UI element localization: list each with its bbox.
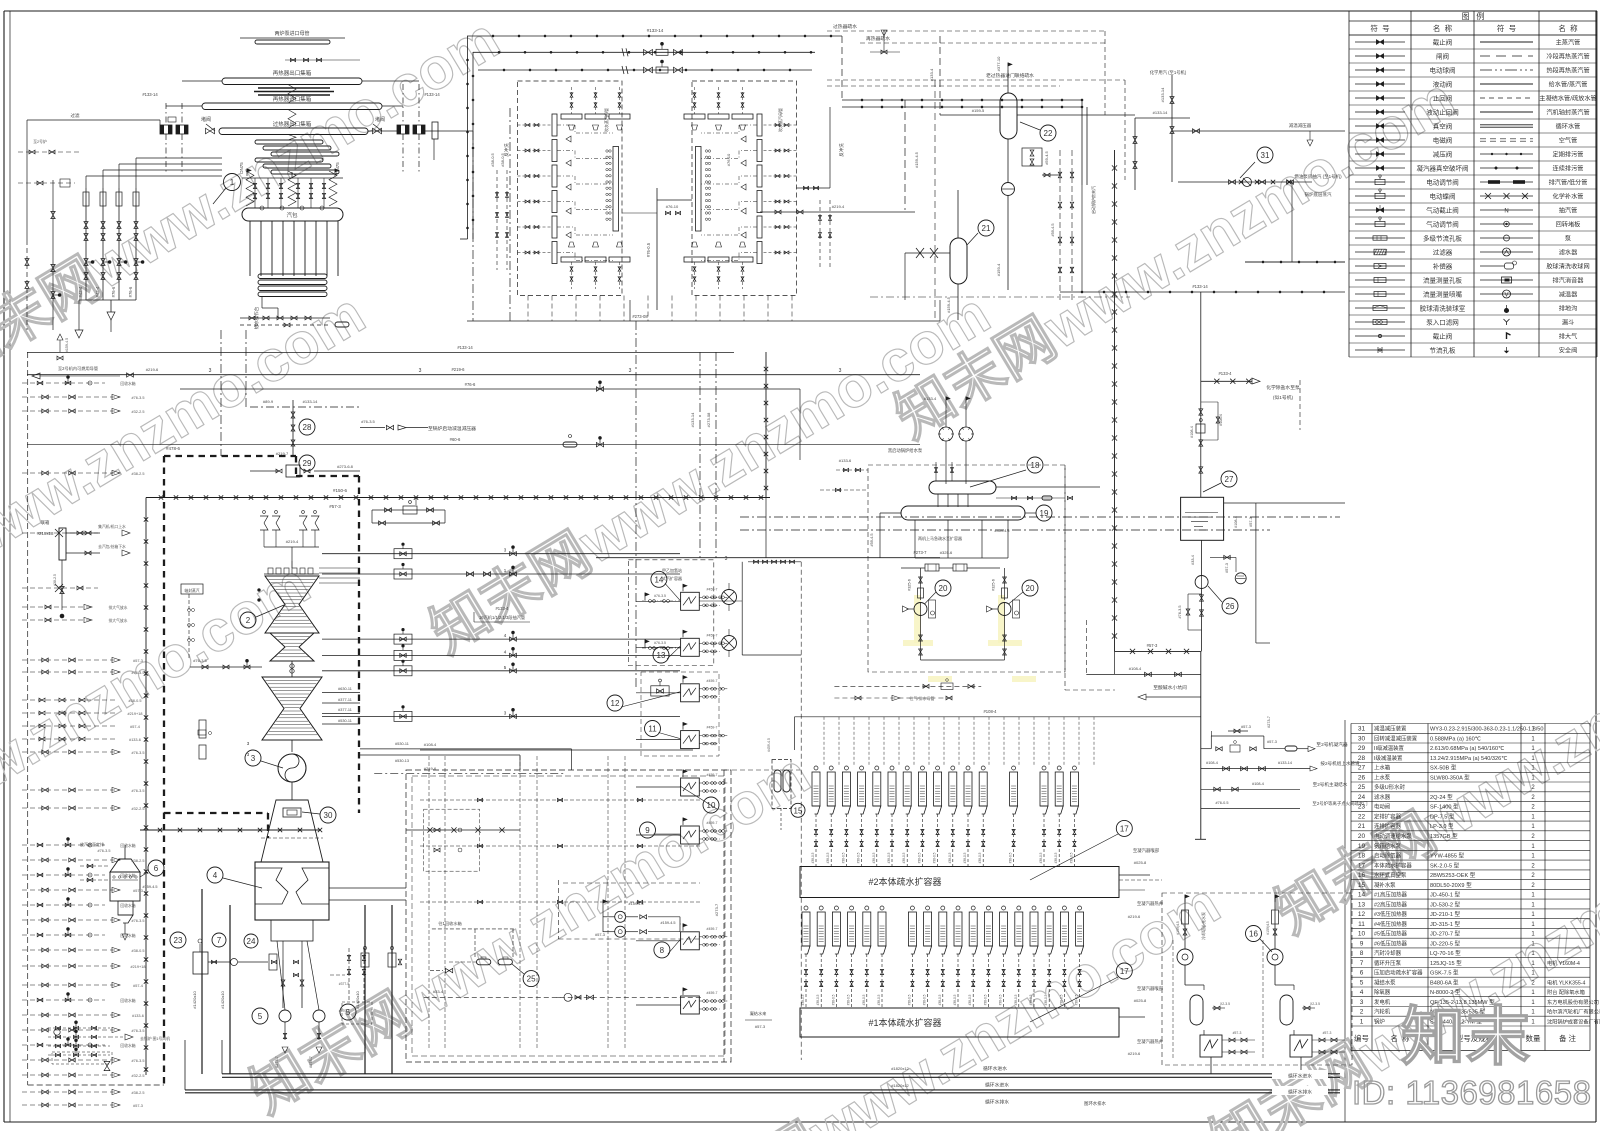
svg-text:#38-0.5: #38-0.5 (1044, 994, 1048, 1005)
svg-text:#219-6: #219-6 (146, 367, 159, 372)
svg-text:#459-4.5: #459-4.5 (995, 529, 1010, 533)
svg-text:#76-3.5: #76-3.5 (361, 419, 375, 424)
svg-text:#57-3: #57-3 (1225, 563, 1229, 573)
svg-text:#219+18: #219+18 (128, 712, 143, 716)
svg-text:SLW80-350A 型: SLW80-350A 型 (1430, 773, 1470, 781)
svg-text:#377-11: #377-11 (338, 698, 352, 702)
svg-text:锅炉底层蒸汽: 锅炉底层蒸汽 (1305, 191, 1332, 198)
svg-text:10: 10 (1358, 931, 1366, 938)
svg-text:启动除氧器: 启动除氧器 (1374, 852, 1402, 860)
svg-text:#76-10: #76-10 (666, 204, 679, 209)
svg-text:#159-4.5: #159-4.5 (65, 338, 69, 352)
svg-text:#38-0.5: #38-0.5 (933, 852, 937, 863)
svg-text:29: 29 (1358, 745, 1366, 752)
svg-text:#38-0.5: #38-0.5 (917, 852, 921, 863)
svg-text:#1420x10: #1420x10 (192, 990, 197, 1008)
svg-text:#133-6: #133-6 (132, 1014, 144, 1018)
svg-text:循环升压泵: 循环升压泵 (1374, 959, 1402, 967)
svg-text:30: 30 (1358, 735, 1366, 742)
svg-text:11: 11 (648, 725, 657, 734)
svg-text:13.24/2.915MPa (a) 540/326℃: 13.24/2.915MPa (a) 540/326℃ (1430, 756, 1508, 762)
svg-text:化学补水管: 化学补水管 (1553, 193, 1584, 201)
svg-text:减压阀: 减压阀 (1433, 150, 1453, 159)
svg-text:至凝汽器热井: 至凝汽器热井 (1137, 1038, 1164, 1045)
svg-text:汽机轴封蒸汽管: 汽机轴封蒸汽管 (1546, 109, 1589, 117)
svg-text:29: 29 (303, 459, 312, 468)
svg-text:#76-3.5: #76-3.5 (132, 751, 145, 755)
svg-text:17: 17 (1358, 862, 1366, 869)
svg-text:定排扩容器: 定排扩容器 (1374, 813, 1402, 821)
svg-text:#57-3: #57-3 (1249, 517, 1253, 527)
svg-text:化学除盐水至泵: 化学除盐水至泵 (1266, 384, 1300, 391)
svg-text:#108-4: #108-4 (1129, 666, 1142, 671)
svg-text:#325-6: #325-6 (940, 550, 953, 555)
svg-text:#38-0.5: #38-0.5 (938, 994, 942, 1005)
svg-text:气动调节阀: 气动调节阀 (1426, 220, 1459, 229)
svg-text:#273-7: #273-7 (1267, 716, 1271, 728)
svg-text:#133-6: #133-6 (839, 458, 852, 463)
svg-text:24: 24 (247, 937, 256, 946)
svg-text:24: 24 (1358, 794, 1366, 801)
svg-text:附台 配除氧水箱: 附台 配除氧水箱 (1547, 988, 1585, 996)
svg-text:#1本体疏水扩容器: #1本体疏水扩容器 (868, 1017, 941, 1028)
svg-text:汽封冷却器: 汽封冷却器 (1374, 949, 1402, 957)
svg-text:#133-4: #133-4 (929, 68, 934, 81)
svg-text:往1回收水箱: 往1回收水箱 (438, 920, 461, 927)
svg-text:主蒸汽管: 主蒸汽管 (1556, 39, 1581, 47)
svg-text:SX-50B 型: SX-50B 型 (1430, 764, 1457, 772)
svg-text:#108-4: #108-4 (1190, 426, 1194, 438)
svg-text:#38-2.5: #38-2.5 (132, 1091, 145, 1095)
svg-text:知末: 知末 (1401, 1001, 1531, 1073)
svg-text:9: 9 (1360, 940, 1364, 947)
svg-text:#38-0.5: #38-0.5 (902, 852, 906, 863)
svg-text:#133-14: #133-14 (457, 345, 473, 350)
svg-text:#1高压加热器: #1高压加热器 (1374, 891, 1408, 899)
svg-text:#219-4: #219-4 (832, 204, 845, 209)
svg-text:#42-4: #42-4 (78, 286, 83, 297)
svg-text:#459-7: #459-7 (707, 633, 718, 637)
svg-text:#1420x10: #1420x10 (220, 990, 225, 1008)
svg-text:3: 3 (251, 754, 256, 763)
svg-text:排大气放水: 排大气放水 (109, 605, 128, 610)
svg-text:至2号机主凝结水: 至2号机主凝结水 (1313, 781, 1348, 788)
svg-text:3: 3 (839, 368, 842, 374)
svg-text:#108-4: #108-4 (983, 709, 997, 714)
svg-text:至凝汽器喉部: 至凝汽器喉部 (1137, 985, 1164, 992)
svg-text:名 称: 名 称 (1433, 23, 1453, 33)
svg-text:汽包: 汽包 (286, 211, 298, 219)
svg-text:名 称: 名 称 (1558, 23, 1578, 33)
svg-text:排大气放水: 排大气放水 (109, 618, 128, 623)
svg-text:#273-7: #273-7 (913, 550, 927, 555)
svg-text:2: 2 (1360, 1009, 1364, 1016)
svg-text:#89-9: #89-9 (263, 399, 274, 404)
svg-text:#57-3: #57-3 (133, 1104, 143, 1108)
svg-text:#459-7: #459-7 (707, 679, 718, 683)
svg-text:I级减温装置: I级减温装置 (1374, 754, 1403, 762)
svg-text:堵阀: 堵阀 (201, 116, 211, 123)
svg-text:#38-0.5: #38-0.5 (816, 994, 820, 1005)
svg-text:反冲洗: 反冲洗 (838, 143, 845, 157)
svg-text:80DL50-20X9 型: 80DL50-20X9 型 (1430, 881, 1472, 889)
svg-text:#133-14: #133-14 (1160, 87, 1165, 102)
svg-text:#57-3: #57-3 (1241, 725, 1251, 729)
svg-text:#38-0.5: #38-0.5 (1075, 994, 1079, 1005)
svg-text:9: 9 (645, 826, 650, 835)
svg-text:#32-2.5: #32-2.5 (132, 410, 145, 414)
svg-text:连排扩容器: 连排扩容器 (1374, 822, 1402, 830)
svg-text:燃油泵房抽汽 (至1号机): 燃油泵房抽汽 (至1号机) (1294, 173, 1342, 180)
svg-text:#459-7: #459-7 (707, 821, 718, 825)
svg-text:2Q-24 型: 2Q-24 型 (1430, 793, 1453, 801)
svg-text:#76-3.5: #76-3.5 (132, 671, 145, 675)
svg-text:20: 20 (1026, 584, 1035, 593)
svg-text:图环水排水: 图环水排水 (1084, 1100, 1107, 1107)
svg-text:循环水排水: 循环水排水 (985, 1099, 1009, 1106)
svg-text:黑启动锅炉给水泵: 黑启动锅炉给水泵 (888, 447, 923, 454)
svg-text:水环式真空泵: 水环式真空泵 (1374, 871, 1407, 879)
svg-text:#38-0.5: #38-0.5 (801, 994, 805, 1005)
svg-text:锅炉: 锅炉 (1374, 1017, 1385, 1025)
svg-text:27: 27 (1225, 475, 1234, 484)
svg-text:#38-0.5: #38-0.5 (132, 949, 145, 953)
svg-text:#76-6: #76-6 (128, 286, 133, 297)
svg-text:堵阀: 堵阀 (375, 116, 385, 123)
svg-text:安全阀: 安全阀 (1559, 347, 1578, 355)
svg-text:#38-0.5: #38-0.5 (490, 152, 495, 166)
svg-text:去汽包/处箱下水: 去汽包/处箱下水 (98, 544, 126, 549)
svg-text:23: 23 (1358, 804, 1366, 811)
svg-text:本体疏水扩容器: 本体疏水扩容器 (1374, 861, 1412, 869)
svg-text:JD-530-2 型: JD-530-2 型 (1430, 900, 1461, 908)
svg-text:17: 17 (1120, 967, 1129, 976)
svg-text:13: 13 (1358, 901, 1366, 908)
svg-text:#76-3.5: #76-3.5 (132, 789, 145, 793)
svg-text:截止阀: 截止阀 (1433, 38, 1453, 47)
svg-text:#459-7: #459-7 (707, 587, 718, 591)
svg-text:#108-4: #108-4 (1219, 414, 1223, 426)
svg-text:#133-14: #133-14 (1278, 761, 1292, 765)
svg-text:回收水箱: 回收水箱 (120, 903, 135, 908)
svg-text:JD-450-1 型: JD-450-1 型 (1430, 891, 1461, 899)
svg-text:#2本体疏水扩容器: #2本体疏水扩容器 (868, 876, 941, 887)
svg-text:X2-3.5: X2-3.5 (1310, 1002, 1320, 1006)
svg-text:氨箱给水泵: 氨箱给水泵 (1374, 842, 1402, 850)
svg-text:备 注: 备 注 (1559, 1033, 1577, 1043)
svg-text:反冲洗: 反冲洗 (503, 143, 510, 157)
svg-text:#33-4: #33-4 (433, 989, 444, 994)
svg-text:至凝汽器热井: 至凝汽器热井 (1137, 900, 1164, 907)
svg-text:JD-210-1 型: JD-210-1 型 (1430, 910, 1461, 918)
svg-text:28: 28 (303, 423, 312, 432)
svg-text:#38-0.5: #38-0.5 (841, 852, 845, 863)
svg-text:#133-14: #133-14 (647, 28, 664, 33)
svg-text:#38-0.5: #38-0.5 (999, 994, 1003, 1005)
svg-text:#159-4: #159-4 (996, 263, 1001, 276)
svg-text:#133-4: #133-4 (924, 396, 937, 401)
svg-text:主凝结水管/疏放水管: 主凝结水管/疏放水管 (1539, 95, 1596, 103)
svg-text:#459-7: #459-7 (707, 927, 718, 931)
svg-text:#57-3: #57-3 (329, 504, 341, 509)
svg-text:11: 11 (1358, 921, 1365, 928)
svg-text:ID: 1136981658: ID: 1136981658 (1352, 1074, 1591, 1111)
svg-text:轴封蒸汽: 轴封蒸汽 (184, 588, 199, 593)
svg-text:#159-4.5: #159-4.5 (946, 296, 951, 313)
svg-text:#76-0.5: #76-0.5 (646, 242, 651, 257)
svg-text:#133-14: #133-14 (303, 399, 318, 404)
svg-text:4: 4 (1360, 989, 1364, 996)
svg-text:#76-3.5: #76-3.5 (132, 1029, 145, 1033)
svg-text:16汽机1/1/2/1/3段抽汽管: 16汽机1/1/2/1/3段抽汽管 (479, 614, 525, 621)
svg-text:#219-6: #219-6 (424, 766, 437, 771)
svg-text:#76-3.5: #76-3.5 (1178, 606, 1182, 619)
svg-text:回收水箱: 回收水箱 (120, 933, 135, 938)
svg-text:#219-4: #219-4 (286, 539, 299, 544)
svg-text:符 号: 符 号 (1370, 23, 1389, 33)
svg-text:25: 25 (527, 975, 536, 984)
svg-text:#273-7: #273-7 (309, 1056, 313, 1068)
svg-text:过滤器: 过滤器 (1433, 248, 1453, 257)
svg-text:#38-0.5: #38-0.5 (862, 994, 866, 1005)
svg-text:#76-3.5: #76-3.5 (132, 919, 145, 923)
svg-text:28: 28 (1358, 755, 1366, 762)
svg-text:#76-6: #76-6 (465, 382, 476, 387)
svg-text:化学用汽 (至1号机): 化学用汽 (至1号机) (1150, 69, 1187, 76)
svg-text:#38-0.5: #38-0.5 (1039, 852, 1043, 863)
svg-text:DN75: DN75 (335, 162, 340, 174)
svg-text:回转减温减压装置: 回转减温减压装置 (1374, 734, 1418, 742)
svg-text:凝汽器真空破坏阀: 凝汽器真空破坏阀 (1417, 164, 1469, 173)
svg-text:胶球清洗收球网: 胶球清洗收球网 (1546, 263, 1589, 271)
svg-text:#133-14: #133-14 (142, 92, 158, 97)
svg-text:#59-4.5: #59-4.5 (1051, 224, 1055, 237)
svg-text:#38-0.5: #38-0.5 (1014, 994, 1018, 1005)
svg-text:#32-2.5: #32-2.5 (132, 1074, 145, 1078)
svg-text:#273-6.8: #273-6.8 (337, 464, 354, 469)
svg-text:#159-4.5: #159-4.5 (143, 885, 158, 889)
svg-text:3: 3 (419, 368, 422, 374)
svg-text:#219x18: #219x18 (37, 531, 54, 536)
svg-text:12: 12 (611, 699, 620, 708)
svg-text:#159(4.5: #159(4.5 (1176, 921, 1180, 934)
svg-text:定期排污管: 定期排污管 (1553, 151, 1584, 159)
svg-text:#219-6: #219-6 (451, 367, 465, 372)
svg-text:#459-7: #459-7 (707, 991, 718, 995)
svg-text:空气管: 空气管 (1559, 137, 1578, 145)
svg-text:循环水进水: 循环水进水 (985, 1082, 1009, 1089)
svg-text:至2号机内可燃用导管: 至2号机内可燃用导管 (58, 365, 98, 372)
svg-text:#273-08: #273-08 (632, 314, 648, 319)
svg-text:#530-13: #530-13 (395, 759, 409, 763)
svg-text:#133-14: #133-14 (424, 92, 440, 97)
svg-text:15: 15 (1358, 882, 1366, 889)
svg-text:#1420x10: #1420x10 (355, 990, 360, 1008)
svg-text:X2-3.5: X2-3.5 (1220, 1002, 1230, 1006)
svg-text:连续排污管: 连续排污管 (1553, 165, 1584, 173)
svg-text:#159-4.5: #159-4.5 (661, 921, 676, 925)
svg-text:#133-14: #133-14 (690, 412, 695, 427)
svg-text:#108-4: #108-4 (1252, 782, 1264, 786)
svg-text:#38-0.5: #38-0.5 (983, 994, 987, 1005)
svg-text:#57-3: #57-3 (755, 1024, 766, 1029)
svg-text:GSK-7.5 型: GSK-7.5 型 (1430, 969, 1459, 977)
svg-text:2.613/0.68MPa (a) 540/160℃: 2.613/0.68MPa (a) 540/160℃ (1430, 746, 1505, 752)
svg-text:SF-1400 型: SF-1400 型 (1430, 803, 1459, 811)
svg-text:至2号炉: 至2号炉 (33, 139, 47, 144)
svg-text:JD-270-7 型: JD-270-7 型 (1430, 930, 1461, 938)
svg-text:#159-5: #159-5 (972, 108, 985, 113)
svg-text:循环水进水: 循环水进水 (983, 1065, 1007, 1072)
svg-text:26: 26 (1226, 602, 1235, 611)
svg-text:14: 14 (1358, 892, 1366, 899)
svg-text:#38-0.5: #38-0.5 (872, 852, 876, 863)
svg-text:19: 19 (1358, 843, 1366, 850)
svg-text:多级U形水封: 多级U形水封 (1374, 783, 1405, 791)
svg-text:#1820x12: #1820x12 (891, 1066, 909, 1071)
svg-text:排汽消音器: 排汽消音器 (1553, 277, 1585, 285)
svg-text:#57-3: #57-3 (133, 889, 143, 893)
svg-text:截止阀: 截止阀 (1433, 332, 1453, 341)
svg-text:#108-4: #108-4 (424, 742, 437, 747)
svg-text:WY3-0.23-2.915/300-363-0.23-1.: WY3-0.23-2.915/300-363-0.23-1.1/250-1.8/… (1430, 727, 1544, 733)
svg-text:#38-0.5: #38-0.5 (811, 852, 815, 863)
svg-text:#219-6: #219-6 (1128, 1051, 1141, 1056)
svg-text:3: 3 (629, 368, 632, 374)
svg-text:#38-2.5: #38-2.5 (53, 574, 57, 586)
svg-text:#38-0.5: #38-0.5 (963, 852, 967, 863)
svg-text:6: 6 (154, 864, 159, 873)
svg-text:#57-3: #57-3 (133, 659, 143, 663)
svg-text:II级减温装置: II级减温装置 (1374, 744, 1405, 752)
svg-text:#150-6: #150-6 (333, 488, 348, 493)
svg-text:胶球清洗装球室: 胶球清洗装球室 (1420, 304, 1466, 313)
svg-text:循环水排水: 循环水排水 (1288, 1089, 1312, 1096)
svg-text:往气/排水母管: 往气/排水母管 (909, 695, 934, 701)
svg-text:1: 1 (230, 178, 235, 187)
svg-text:气动截止阀: 气动截止阀 (1426, 206, 1459, 215)
svg-text:14: 14 (654, 575, 663, 584)
svg-text:20: 20 (1358, 833, 1366, 840)
svg-text:#530-11: #530-11 (338, 719, 352, 723)
svg-text:式汽扩容器: 式汽扩容器 (662, 575, 682, 581)
svg-text:按2号机组上水管道: 按2号机组上水管道 (1320, 760, 1360, 767)
svg-text:JD-220-5 型: JD-220-5 型 (1430, 939, 1461, 947)
svg-text:#38-0.5: #38-0.5 (1029, 994, 1033, 1005)
svg-text:电机 Y160M-4: 电机 Y160M-4 (1547, 959, 1580, 967)
svg-text:#57-4: #57-4 (133, 984, 143, 988)
svg-text:电动阀: 电动阀 (1374, 803, 1390, 811)
svg-text:#38-0.5: #38-0.5 (968, 994, 972, 1005)
svg-text:#38-0.5: #38-0.5 (907, 994, 911, 1005)
svg-text:27: 27 (1358, 765, 1366, 772)
svg-text:编号: 编号 (1354, 1033, 1369, 1043)
svg-text:22: 22 (1358, 814, 1366, 821)
svg-text:图 例: 图 例 (1462, 11, 1485, 21)
svg-text:#59-4.5: #59-4.5 (870, 534, 874, 547)
svg-text:15: 15 (794, 806, 803, 815)
svg-text:19: 19 (1040, 509, 1049, 518)
svg-text:21: 21 (1358, 823, 1366, 830)
svg-text:减温减压装置: 减温减压装置 (1374, 725, 1407, 733)
svg-text:125JQ-15 型: 125JQ-15 型 (1430, 959, 1462, 967)
svg-text:#108-4: #108-4 (1234, 516, 1238, 528)
svg-text:8: 8 (1360, 950, 1364, 957)
svg-text:真空阀: 真空阀 (1433, 122, 1453, 131)
svg-text:#76-0.5: #76-0.5 (1216, 801, 1229, 805)
svg-text:滤水器: 滤水器 (1374, 793, 1391, 801)
svg-text:#1820x12: #1820x12 (891, 1083, 909, 1088)
svg-text:#60-6: #60-6 (450, 437, 461, 442)
svg-text:#38-0.5: #38-0.5 (923, 994, 927, 1005)
svg-text:5: 5 (1360, 979, 1364, 986)
svg-text:13: 13 (657, 651, 666, 660)
svg-text:排汽管/低分管: 排汽管/低分管 (1549, 179, 1588, 187)
svg-text:#133-6: #133-6 (129, 738, 141, 742)
svg-text:发电机: 发电机 (1374, 998, 1391, 1006)
svg-text:#57-3: #57-3 (1147, 643, 1158, 648)
svg-text:去锅炉 图1号风机: 去锅炉 图1号风机 (140, 1036, 170, 1041)
svg-text:#3低压加热器: #3低压加热器 (1374, 910, 1408, 918)
svg-text:31: 31 (1261, 151, 1270, 160)
svg-text:凝结水泵: 凝结水泵 (1374, 978, 1396, 986)
svg-text:#57-4: #57-4 (130, 725, 140, 729)
svg-text:#76-3.5: #76-3.5 (654, 641, 666, 645)
svg-text:上水箱: 上水箱 (1374, 764, 1391, 772)
svg-text:滤水器: 滤水器 (1559, 249, 1578, 257)
svg-text:22: 22 (1044, 129, 1053, 138)
svg-text:抽汽管: 抽汽管 (1559, 207, 1578, 215)
svg-text:电动球阀: 电动球阀 (1430, 66, 1456, 75)
svg-text:SK-2.0-5 型: SK-2.0-5 型 (1430, 861, 1460, 869)
svg-text:#108-4: #108-4 (1206, 761, 1218, 765)
svg-text:过热器疏水: 过热器疏水 (833, 23, 857, 30)
svg-text:#38-0.5: #38-0.5 (826, 852, 830, 863)
svg-text:热段再热蒸汽管: 热段再热蒸汽管 (1546, 67, 1589, 75)
svg-text:甲乙加氢站: 甲乙加氢站 (662, 567, 682, 573)
svg-text:#33-4: #33-4 (1191, 555, 1195, 565)
svg-text:启动锅炉房来汽: 启动锅炉房来汽 (1090, 186, 1096, 214)
svg-text:电动调节阀: 电动调节阀 (1426, 178, 1459, 187)
svg-text:N: N (1504, 209, 1508, 215)
svg-text:#38-0.5: #38-0.5 (847, 994, 851, 1005)
svg-text:两炉泵进口母管: 两炉泵进口母管 (274, 30, 309, 37)
svg-text:#459-7: #459-7 (707, 726, 718, 730)
svg-text:压加启动疏水扩容器: 压加启动疏水扩容器 (1374, 969, 1423, 977)
svg-text:LP-3.0 型: LP-3.0 型 (1430, 822, 1454, 830)
svg-text:2: 2 (246, 616, 251, 625)
svg-text:液动阀: 液动阀 (1433, 80, 1453, 89)
svg-text:#5低压加热器: #5低压加热器 (1374, 930, 1408, 938)
svg-text:电机 YLKK355-4: 电机 YLKK355-4 (1547, 978, 1585, 986)
svg-text:集汽机/机口上水: 集汽机/机口上水 (98, 524, 126, 529)
svg-text:#38-0.5: #38-0.5 (129, 699, 142, 703)
svg-text:闸阀: 闸阀 (1436, 52, 1449, 61)
svg-text:流量测量孔板: 流量测量孔板 (1423, 276, 1463, 285)
svg-text:#42-4: #42-4 (95, 286, 100, 297)
svg-text:回收水箱: 回收水箱 (120, 381, 135, 386)
svg-text:两机上马急疏水至扩容器: 两机上马急疏水至扩容器 (918, 535, 962, 541)
svg-text:JD-315-1 型: JD-315-1 型 (1430, 920, 1461, 928)
svg-text:循环水进水: 循环水进水 (1288, 1073, 1312, 1080)
svg-text:至酸碱水小坑间: 至酸碱水小坑间 (1153, 684, 1187, 691)
svg-text:23: 23 (174, 936, 183, 945)
svg-text:3: 3 (725, 556, 728, 562)
svg-text:泵入口滤网: 泵入口滤网 (1426, 318, 1459, 327)
svg-text:上水泵: 上水泵 (1374, 773, 1391, 781)
svg-text:#76-10: #76-10 (726, 153, 731, 166)
svg-text:哈尔滨汽轮机厂有限公司: 哈尔滨汽轮机厂有限公司 (1547, 1008, 1600, 1016)
